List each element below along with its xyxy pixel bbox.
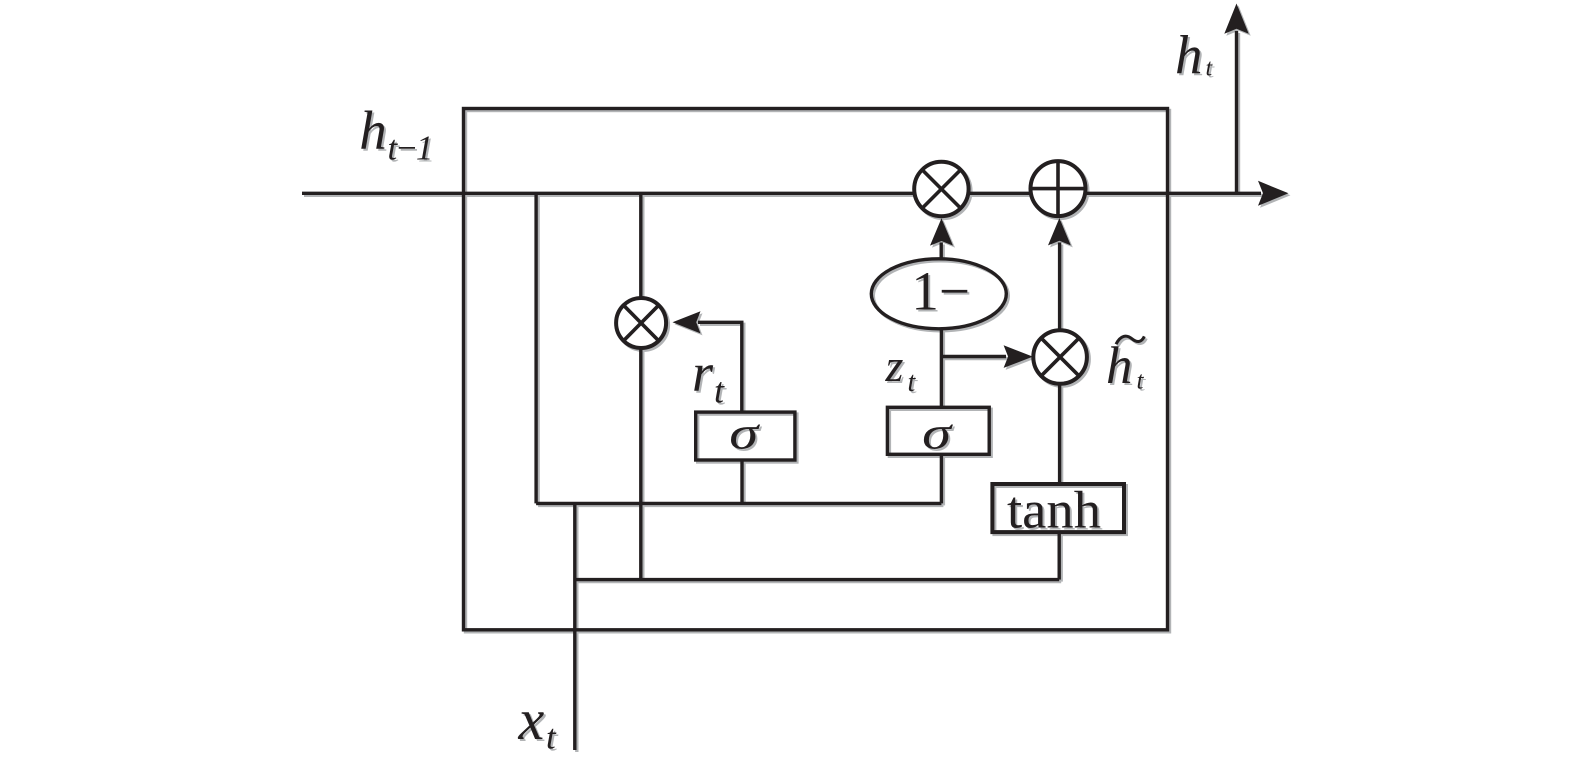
svg-text:h: h xyxy=(1106,337,1133,395)
svg-text:h: h xyxy=(359,100,387,161)
svg-text:h: h xyxy=(1175,25,1203,86)
svg-text:t−1: t−1 xyxy=(388,129,431,168)
svg-text:σ: σ xyxy=(922,407,953,459)
svg-text:t: t xyxy=(546,718,557,757)
svg-text:z: z xyxy=(885,340,904,391)
svg-text:t: t xyxy=(908,367,917,398)
svg-text:tanh: tanh xyxy=(1007,482,1101,540)
svg-text:t: t xyxy=(1137,368,1145,395)
svg-text:r: r xyxy=(692,343,714,403)
svg-text:1−: 1− xyxy=(911,261,970,322)
svg-text:σ: σ xyxy=(729,407,760,459)
svg-text:x: x xyxy=(518,687,545,752)
svg-text:t: t xyxy=(714,371,725,411)
svg-text:t: t xyxy=(1206,56,1214,82)
